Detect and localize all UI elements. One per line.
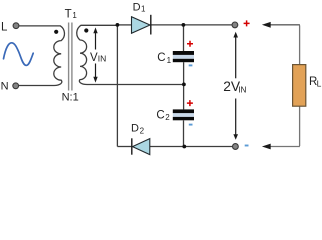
svg-text:L: L [317, 79, 322, 89]
svg-text:1: 1 [72, 11, 77, 20]
svg-text:2: 2 [165, 113, 170, 122]
svg-text:2: 2 [140, 127, 145, 136]
svg-text:T: T [65, 8, 72, 20]
svg-text:V: V [90, 52, 98, 64]
svg-text:IN: IN [238, 85, 246, 94]
svg-text:D: D [133, 1, 141, 13]
svg-text:L: L [1, 21, 8, 33]
svg-text:C: C [157, 52, 165, 64]
svg-text:IN: IN [98, 53, 107, 63]
svg-text:C: C [156, 109, 164, 121]
svg-text:1: 1 [167, 56, 172, 65]
svg-text:1: 1 [141, 5, 146, 14]
svg-text:N: N [1, 81, 9, 93]
svg-text:D: D [131, 122, 139, 134]
svg-text:N:1: N:1 [62, 91, 79, 103]
